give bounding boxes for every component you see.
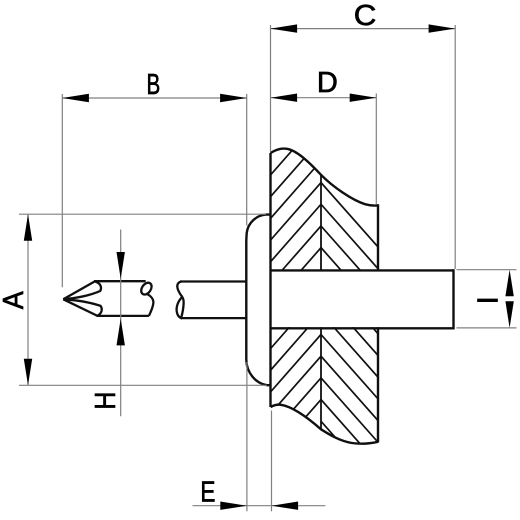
plate sheet 1 (left, hatched) xyxy=(262,107,330,467)
dimension B line xyxy=(62,97,246,99)
dimension D arrow right xyxy=(350,94,377,102)
dimension E right extension xyxy=(271,411,273,512)
plate right edge xyxy=(377,204,379,442)
dimension H line xyxy=(120,230,122,417)
dimension C arrow right xyxy=(429,24,456,32)
dimension E left extension xyxy=(246,362,248,511)
dimension I extension bottom xyxy=(457,327,517,329)
plate sheet 2 (right, hatched) xyxy=(315,176,386,517)
dimension B right extension xyxy=(246,94,248,226)
dimension I arrow up xyxy=(505,270,513,297)
dimension A extension line top xyxy=(19,213,266,215)
dimension C right extension xyxy=(454,25,456,269)
mandrel head cone outer edges xyxy=(63,281,95,299)
dimension D arrow left xyxy=(271,94,298,102)
svg-text:D: D xyxy=(317,67,338,99)
dimension C line xyxy=(271,28,456,30)
dimension E line xyxy=(193,505,326,507)
dimension I extension top xyxy=(457,269,517,271)
dimension A line xyxy=(27,214,29,385)
mandrel head break (right end): loop xyxy=(139,281,154,297)
mandrel head cylinder xyxy=(94,280,146,282)
sleeve right end face xyxy=(452,269,454,329)
dimension A arrow down xyxy=(24,359,32,386)
dimension C left extension xyxy=(270,25,272,152)
svg-text:I: I xyxy=(473,296,505,304)
dimension C arrow left xyxy=(271,24,298,32)
dimension A extension line bottom xyxy=(19,384,267,386)
dimension A arrow up xyxy=(24,214,32,241)
dimension B arrow right xyxy=(220,94,247,102)
dimension B left extension xyxy=(61,94,63,287)
dimension H arrow bottom (pointing up) xyxy=(117,319,125,346)
dimension D right extension xyxy=(375,94,377,205)
mandrel head break (right end): arc xyxy=(147,294,154,316)
mandrel head upper facet petal xyxy=(63,281,101,299)
mandrel stem xyxy=(180,280,246,282)
plate sheet boundary line xyxy=(320,175,322,429)
plate left edge / flange right face xyxy=(269,153,271,407)
sleeve bottom line xyxy=(271,327,454,329)
svg-text:H: H xyxy=(89,392,121,410)
mandrel stem break (left end) xyxy=(177,282,182,297)
dimension E arrow right (pointing left) xyxy=(272,502,299,510)
mandrel head lower facet petal xyxy=(63,299,101,315)
svg-text:E: E xyxy=(200,475,215,508)
rivet sleeve body (white, through hole) xyxy=(271,272,454,328)
dimension I arrow down xyxy=(505,301,513,328)
dimension E arrow left (pointing right) xyxy=(220,502,247,510)
dimension B arrow left xyxy=(62,94,89,102)
svg-text:A: A xyxy=(0,291,29,309)
plate bottom broken edge (wavy) xyxy=(271,405,379,444)
plate top broken edge (wavy) xyxy=(271,149,379,206)
svg-text:B: B xyxy=(147,68,161,100)
svg-text:C: C xyxy=(354,0,377,32)
sleeve top line xyxy=(271,269,454,271)
dimension D line xyxy=(271,97,377,99)
dimension H arrow top (pointing down) xyxy=(117,252,125,279)
rivet flange (head) xyxy=(246,215,270,386)
